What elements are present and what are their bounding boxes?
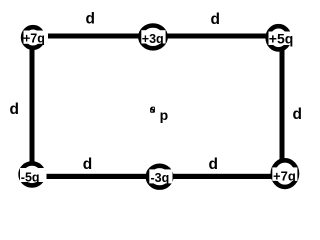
svg-text:p: p	[160, 107, 169, 123]
charge node +5q top-right	[268, 26, 290, 49]
wire right side	[280, 38, 285, 173]
svg-text:d: d	[10, 101, 19, 118]
charge node -3q bottom-middle	[148, 166, 171, 188]
node marker at center	[150, 107, 155, 113]
charge node +7q bottom-right	[273, 160, 297, 187]
charge node +7q top-left	[23, 27, 43, 48]
svg-text:d: d	[86, 11, 95, 28]
svg-text:+5q: +5q	[269, 31, 294, 47]
wire bottom side	[32, 174, 285, 179]
svg-text:d: d	[293, 106, 302, 123]
charge node -5q bottom-left	[21, 163, 44, 185]
charge node +3q top-middle	[140, 26, 165, 49]
svg-text:+7q: +7q	[273, 168, 296, 183]
svg-text:d: d	[209, 156, 218, 173]
svg-text:d: d	[83, 156, 92, 173]
svg-text:+3q: +3q	[142, 32, 164, 46]
svg-text:-5q: -5q	[21, 171, 40, 185]
svg-text:d: d	[211, 11, 220, 28]
svg-text:-3q: -3q	[151, 171, 170, 185]
wire left side	[30, 37, 35, 175]
svg-text:+7q: +7q	[23, 31, 45, 45]
wire top side	[33, 34, 282, 39]
